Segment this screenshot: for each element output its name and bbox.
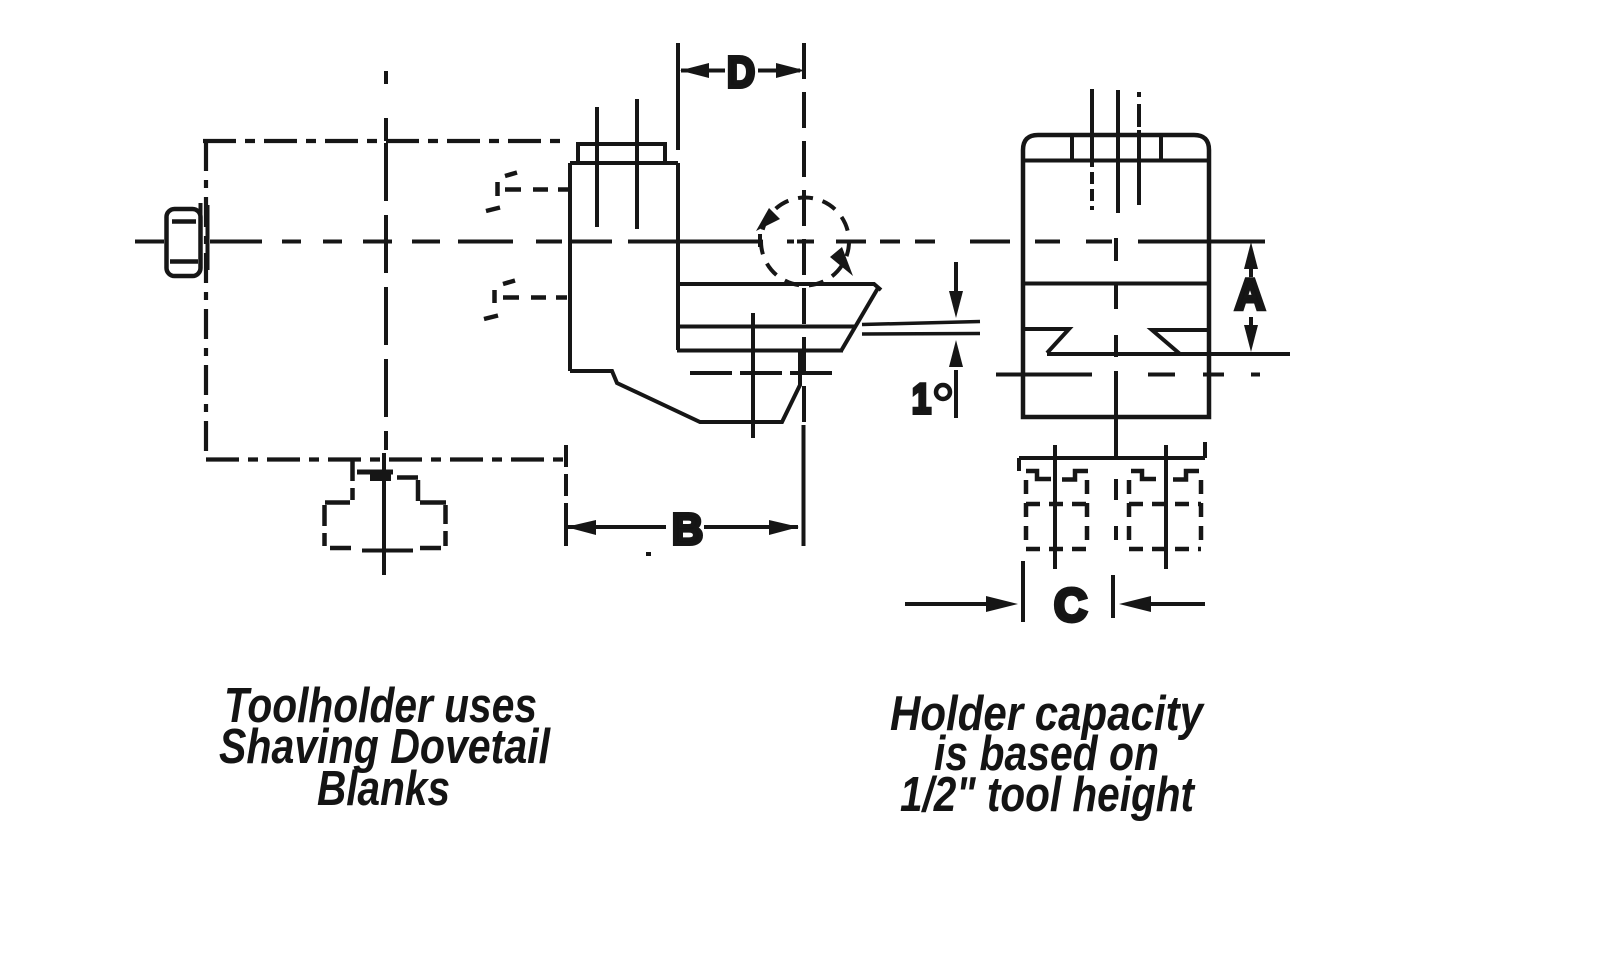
toolholder top strip (578, 144, 665, 163)
right view block outline (1023, 135, 1209, 417)
dimension D (678, 43, 805, 150)
caption left (219, 679, 551, 816)
right foot dashed (1129, 471, 1201, 549)
toolholder body left edge (568, 163, 572, 371)
band ticks (1072, 137, 1161, 160)
svg-text:A: A (1235, 270, 1265, 319)
dimension B (566, 445, 799, 546)
svg-text:1/2" tool height: 1/2" tool height (900, 768, 1195, 822)
vertical dashed pivot line (802, 43, 806, 425)
feet top line (1019, 442, 1205, 471)
toolholder body top (570, 161, 678, 165)
slot top line (1023, 282, 1209, 286)
horizontal centerline (main axis) (135, 234, 1265, 261)
svg-text:C: C (1054, 579, 1087, 631)
screw shank lines (597, 99, 637, 229)
svg-text:1: 1 (912, 375, 931, 422)
dimension C (905, 561, 1205, 622)
hidden hole mark upper (486, 173, 568, 212)
vertical phantom centerline (384, 71, 388, 141)
block vertical centerline (1114, 285, 1118, 540)
stray speck (646, 552, 651, 556)
hidden hole mark lower (484, 281, 567, 320)
rotation circle dashed (761, 198, 849, 286)
1-degree arrows (949, 262, 963, 418)
caption right (890, 687, 1205, 822)
insert screw centerlines (751, 313, 755, 438)
phantom cross-slide outline (203, 141, 569, 460)
toolholder body right edge (676, 163, 680, 350)
dovetail notch (1023, 329, 1290, 354)
jaw centerline (362, 453, 413, 575)
rotation arrows (756, 208, 853, 276)
svg-text:B: B (672, 505, 703, 554)
feet tick centerlines (1055, 445, 1166, 569)
1-degree gap lines (862, 322, 980, 335)
top band line (1023, 159, 1209, 163)
svg-text:Blanks: Blanks (317, 762, 450, 816)
toolholder bottom profile (570, 350, 800, 422)
dimension A (1244, 242, 1258, 352)
bolt head (167, 203, 208, 276)
svg-text:D: D (727, 48, 755, 97)
left foot dashed (1026, 471, 1088, 549)
dash-dot seat line (996, 373, 1260, 377)
insert blade (677, 284, 881, 351)
chuck jaw dashed step block (325, 461, 447, 548)
screw lines above block (1092, 89, 1139, 213)
